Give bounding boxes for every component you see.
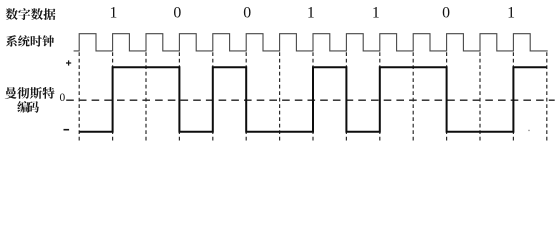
- svg-text:0: 0: [442, 5, 450, 22]
- bit boundary line B0: [78, 52, 80, 141]
- label: system clock (系统时钟): [6, 35, 54, 47]
- mid-bit line M2: [178, 52, 180, 141]
- bit boundary line B2: [212, 52, 214, 141]
- label: Manchester encoding line1 (曼彻斯特): [5, 87, 55, 99]
- system clock waveform: [74, 34, 548, 51]
- stray speck artifact: [528, 130, 530, 132]
- mid-bit line M5: [379, 52, 381, 141]
- bit-cell dashed vertical grid lines: [79, 52, 547, 141]
- zero-level horizontal dashed line: [66, 99, 555, 101]
- mid-bit line M1: [112, 52, 114, 141]
- mid-bit line M4: [312, 52, 314, 141]
- mid-bit line M3: [245, 52, 247, 141]
- bit boundary line B7: [546, 52, 548, 141]
- bit boundary line B4: [345, 52, 347, 141]
- level label minus (-): [64, 129, 70, 131]
- svg-text:0: 0: [60, 92, 66, 104]
- bit boundary line B6: [479, 52, 481, 141]
- svg-text:1: 1: [507, 5, 515, 22]
- level label plus (+): [66, 60, 71, 65]
- svg-text:1: 1: [307, 5, 315, 22]
- bit boundary line B5: [412, 52, 414, 141]
- mid-bit line M7: [512, 52, 514, 141]
- label: digital data (数字数据): [6, 8, 56, 20]
- bit boundary line B1: [145, 52, 147, 141]
- svg-text:0: 0: [243, 5, 251, 22]
- svg-text:0: 0: [173, 5, 181, 22]
- mid-bit line M6: [446, 52, 448, 141]
- data bit values row: [110, 5, 516, 22]
- label: Manchester encoding line2 (编码): [17, 101, 39, 113]
- bit boundary line B3: [279, 52, 281, 141]
- manchester encoded waveform: [79, 67, 547, 131]
- svg-text:1: 1: [110, 5, 118, 22]
- svg-text:1: 1: [372, 5, 380, 22]
